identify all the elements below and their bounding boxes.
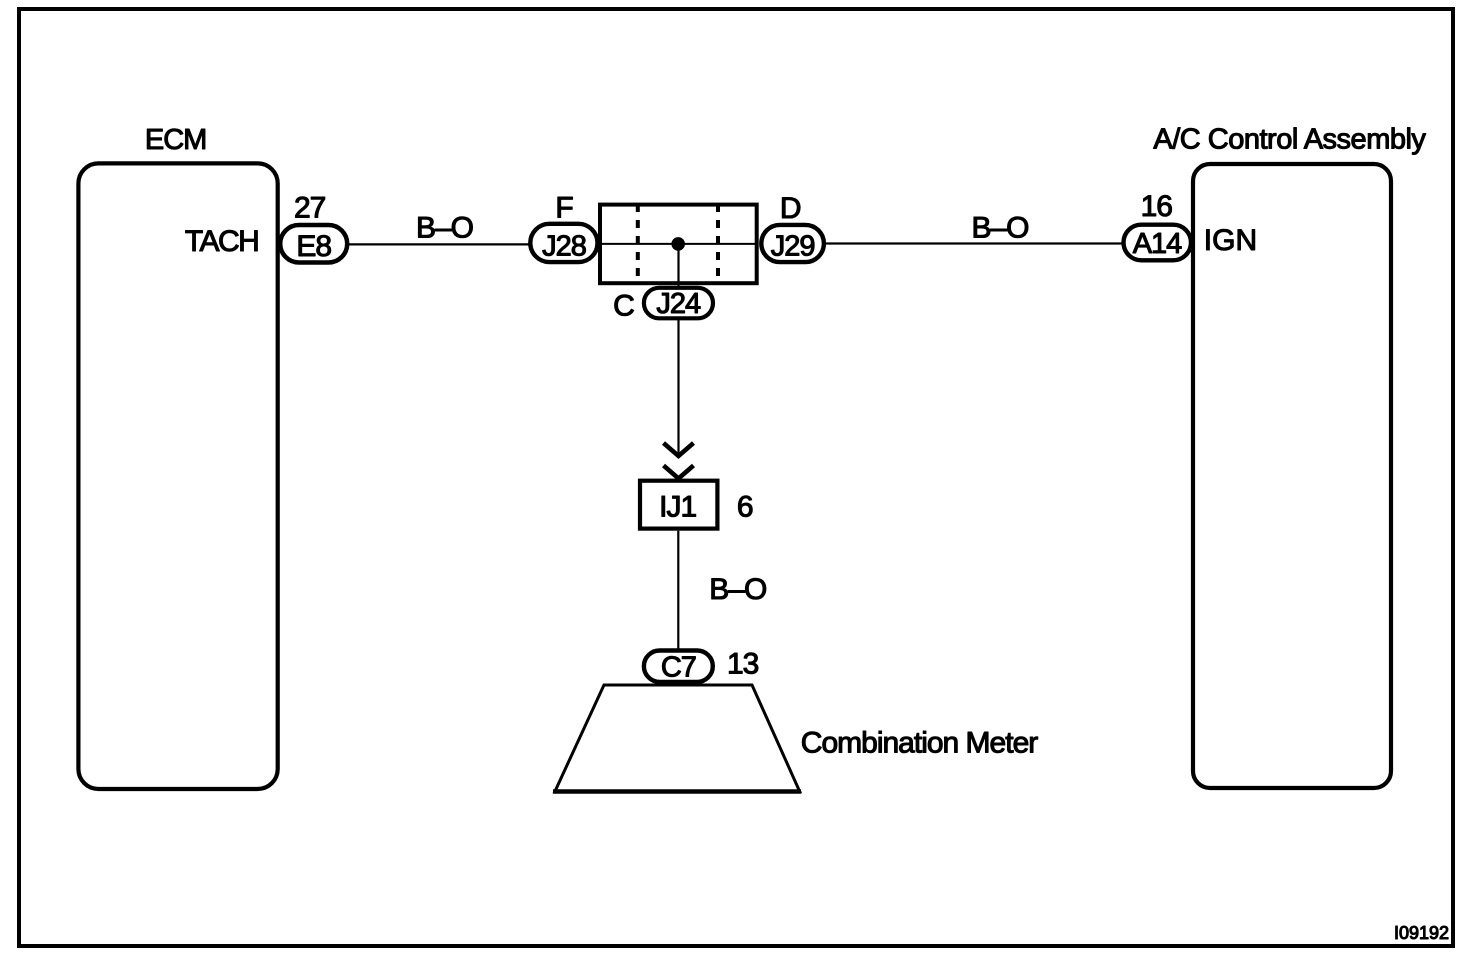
svg-text:J24: J24 xyxy=(656,288,701,320)
svg-text:A14: A14 xyxy=(1133,228,1182,260)
arrow chevron 2 xyxy=(664,466,694,479)
svg-text:F: F xyxy=(555,192,573,225)
junction node dot xyxy=(671,237,685,251)
svg-text:IGN: IGN xyxy=(1204,224,1257,257)
connector E8 xyxy=(280,225,347,263)
svg-text:B–O: B–O xyxy=(971,212,1028,245)
svg-text:27: 27 xyxy=(294,192,326,225)
svg-text:16: 16 xyxy=(1141,190,1173,223)
junction box xyxy=(600,205,757,284)
A/C Control Assembly box xyxy=(1193,164,1391,788)
wire IJ1 to C7 xyxy=(677,531,679,649)
svg-text:TACH: TACH xyxy=(185,225,258,258)
svg-text:6: 6 xyxy=(737,491,754,524)
combination meter bottom edge xyxy=(553,789,801,794)
svg-text:D: D xyxy=(780,192,802,225)
junction connector J28 xyxy=(530,224,597,262)
svg-text:13: 13 xyxy=(727,648,759,681)
svg-text:ECM: ECM xyxy=(145,124,206,156)
wire J24 down to arrow xyxy=(677,318,679,456)
svg-text:B–O: B–O xyxy=(709,573,766,606)
svg-text:B–O: B–O xyxy=(416,212,473,245)
combination meter trapezoid xyxy=(555,685,800,792)
junction connector J29 xyxy=(761,225,824,262)
arrow chevron 1 xyxy=(664,443,694,456)
wire E8 to J28 xyxy=(348,243,531,245)
wire through junction box xyxy=(600,243,756,245)
junction connector J24 xyxy=(644,288,713,319)
svg-text:E8: E8 xyxy=(296,230,331,263)
svg-text:J28: J28 xyxy=(542,231,586,263)
svg-text:A/C Control Assembly: A/C Control Assembly xyxy=(1153,124,1426,156)
svg-text:C: C xyxy=(613,290,635,323)
svg-text:J29: J29 xyxy=(771,231,815,263)
wire J29 to A14 xyxy=(826,242,1123,244)
connector C7 xyxy=(644,651,713,682)
svg-text:IJ1: IJ1 xyxy=(659,491,696,524)
wire dot to J24 xyxy=(677,244,679,288)
junction box dashed divider left xyxy=(636,204,640,283)
svg-text:Combination Meter: Combination Meter xyxy=(801,726,1038,759)
junction block IJ1 xyxy=(640,481,717,529)
connector A14 xyxy=(1124,225,1192,261)
svg-text:C7: C7 xyxy=(661,652,696,684)
ECM component box xyxy=(78,163,277,789)
junction box dashed divider right xyxy=(716,204,720,283)
svg-text:I09192: I09192 xyxy=(1394,923,1449,943)
